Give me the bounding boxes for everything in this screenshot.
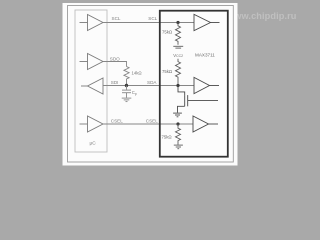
ground for Cp: [122, 98, 132, 102]
label 75k R1: [162, 29, 173, 34]
node junction SDO/SDI: [125, 84, 128, 87]
label CSEL (chip pin): [146, 119, 158, 124]
svg-text:SDO: SDO: [110, 56, 120, 61]
node junction CSEL pulldown: [176, 122, 179, 125]
label Cp: [132, 90, 137, 96]
node junction SCL pullup: [176, 21, 179, 24]
resistor R1 75k pullup SCL: [176, 23, 181, 45]
svg-text:Cp: Cp: [132, 90, 137, 96]
buffer A3 (SDI receiver in uC): [81, 78, 103, 94]
buffer U1C (CSEL input buffer): [193, 116, 218, 132]
svg-text:SDA: SDA: [147, 80, 157, 85]
svg-text:75kΩ: 75kΩ: [162, 134, 173, 139]
node junction SDA pullup: [176, 84, 179, 87]
svg-text:MAX3711: MAX3711: [195, 53, 215, 58]
label SCL (chip pin): [148, 16, 157, 21]
border frame: [68, 6, 234, 163]
label VCC2: [173, 53, 183, 58]
buffer U1B (SDA input buffer): [194, 77, 219, 93]
wire SCL net: [103, 22, 194, 24]
buffer A1 (SCL driver in uC): [80, 15, 104, 31]
schematic page background: [63, 3, 238, 166]
buffer U1A (SCL input buffer): [194, 14, 220, 30]
resistor Rs 14k between SDO and SDI: [124, 67, 129, 86]
ground for R3: [174, 145, 183, 149]
wire SDO to resistor Rs: [103, 62, 127, 67]
wire CSEL net: [103, 123, 193, 125]
svg-text:µC: µC: [90, 141, 97, 147]
label 75k R3: [162, 134, 173, 139]
buffer A2 (SDO driver in uC): [80, 54, 104, 70]
label 75k R2: [162, 69, 173, 74]
transistor Q1 (open-drain on SDA): [178, 86, 219, 113]
ground for Q1 source: [173, 113, 182, 117]
svg-text:14kΩ: 14kΩ: [132, 71, 143, 76]
buffer A4 (CSEL driver in uC): [80, 116, 104, 132]
label SCL (uC side): [112, 16, 121, 21]
svg-text:SCL: SCL: [112, 16, 121, 21]
resistor R2 75k pullup SDA: [176, 59, 181, 86]
supply rail VCC2 (top bar): [173, 46, 183, 48]
svg-text:SCL: SCL: [148, 16, 157, 21]
label SDA (chip pin): [147, 80, 157, 85]
resistor R3 75k pulldown CSEL: [176, 124, 181, 145]
svg-text:SDI: SDI: [111, 80, 119, 85]
label 14k: [132, 71, 143, 76]
svg-text:CSEL: CSEL: [146, 119, 158, 124]
watermark www.chipdip.ru: [226, 11, 296, 21]
label CSEL (uC side): [111, 119, 123, 124]
uC label: [90, 141, 97, 147]
svg-text:VCC2: VCC2: [173, 53, 183, 58]
svg-text:CSEL: CSEL: [111, 119, 123, 124]
wire SDI/SDA net: [103, 85, 194, 87]
svg-text:75kΩ: 75kΩ: [162, 69, 173, 74]
label SDI: [111, 80, 119, 85]
microcontroller box U2: [75, 10, 107, 152]
capacitor Cp: [122, 86, 131, 98]
label MAX3711: [195, 53, 215, 58]
label SDO: [110, 56, 120, 61]
svg-text:75kΩ: 75kΩ: [162, 29, 173, 34]
IC U1 MAX3711 box: [160, 11, 228, 157]
